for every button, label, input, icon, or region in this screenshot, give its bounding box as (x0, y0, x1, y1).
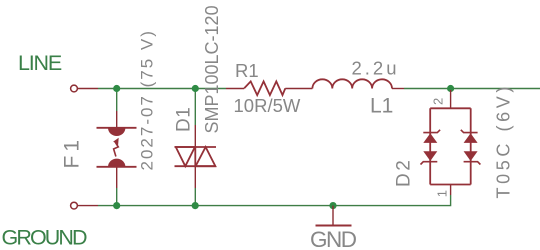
zener D2 left upper triangle (423, 133, 437, 143)
surge arrester F1 top disc (108, 128, 125, 136)
junction top rail F1 (113, 85, 120, 92)
svg-text:10R/5W: 10R/5W (234, 95, 301, 116)
wire F1 top green (116, 89, 118, 112)
terminal pin LINE (red) (78, 88, 98, 90)
wire D1 top green (194, 89, 196, 126)
svg-text:GROUND: GROUND (2, 225, 88, 249)
svg-text:SMP100LC-120: SMP100LC-120 (202, 5, 222, 133)
surge arrester F1 top electrode (97, 127, 137, 129)
wire top rail green (98, 88, 226, 90)
zener D2 left lower bar (421, 162, 438, 165)
wire top rail right green (404, 88, 540, 90)
wire bottom rail green (98, 195, 451, 206)
sidactor D1 top bar (175, 146, 217, 148)
gnd tap red (332, 206, 334, 226)
tvs D2 bottom bar (430, 184, 471, 186)
svg-text:2027-07 (75 V): 2027-07 (75 V) (138, 29, 157, 170)
terminal circle GROUND (71, 202, 78, 209)
svg-text:LINE: LINE (18, 51, 62, 75)
wire F1 bottom green (116, 188, 118, 206)
sidactor D1 left triangle (176, 147, 195, 166)
svg-text:F1: F1 (61, 136, 84, 169)
surge arrester F1 bottom disc (108, 159, 125, 167)
sidactor D1 right triangle (196, 147, 216, 166)
terminal pin GROUND (red) (78, 205, 98, 207)
wire D1 bottom green (194, 188, 196, 206)
junction top rail D1 (192, 85, 199, 92)
junction bottom rail D1 (192, 202, 199, 209)
zener D2 right upper bar (461, 130, 478, 133)
pin D1 top red (194, 125, 196, 147)
tvs D2 left branch (429, 108, 431, 184)
pin R1 left red (226, 88, 244, 90)
junction bottom rail GND (329, 202, 336, 209)
svg-text:R1: R1 (235, 60, 259, 81)
zener D2 left lower triangle (423, 151, 437, 161)
tvs D2 right branch (470, 108, 472, 184)
surge arrester F1 arrow (114, 143, 119, 157)
svg-text:GND: GND (310, 227, 357, 250)
svg-text:2.2u: 2.2u (352, 58, 400, 79)
svg-text:T05C (6V): T05C (6V) (494, 83, 514, 198)
pin R1 right / L1 left red (285, 88, 312, 90)
pin D2 top red (450, 90, 452, 108)
resistor R1 zigzag (244, 81, 285, 95)
gnd symbol bar (316, 225, 352, 227)
pin D1 bottom red (194, 166, 196, 188)
pin D2 bottom red (450, 185, 452, 196)
zener D2 left upper bar (423, 130, 440, 133)
svg-text:L1: L1 (370, 95, 393, 118)
svg-text:D1: D1 (174, 107, 195, 132)
tvs D2 top bar (430, 107, 471, 109)
junction bottom rail F1 (113, 202, 120, 209)
svg-text:2: 2 (431, 98, 446, 105)
zener D2 right upper triangle (464, 133, 478, 143)
pin F1 top red (116, 111, 118, 128)
pin L1 right red (392, 88, 404, 90)
surge arrester F1 bottom electrode (97, 166, 137, 168)
pin F1 bottom red (116, 167, 118, 188)
inductor L1 humps (312, 79, 392, 88)
sidactor D1 center line (194, 147, 196, 166)
sidactor D1 bottom bar (175, 165, 217, 167)
junction top rail D2 (447, 85, 454, 92)
terminal circle LINE (71, 85, 78, 92)
zener D2 right lower bar (464, 162, 481, 165)
zener D2 right lower triangle (464, 151, 478, 161)
svg-text:D2: D2 (394, 158, 415, 187)
svg-text:1: 1 (435, 190, 450, 197)
